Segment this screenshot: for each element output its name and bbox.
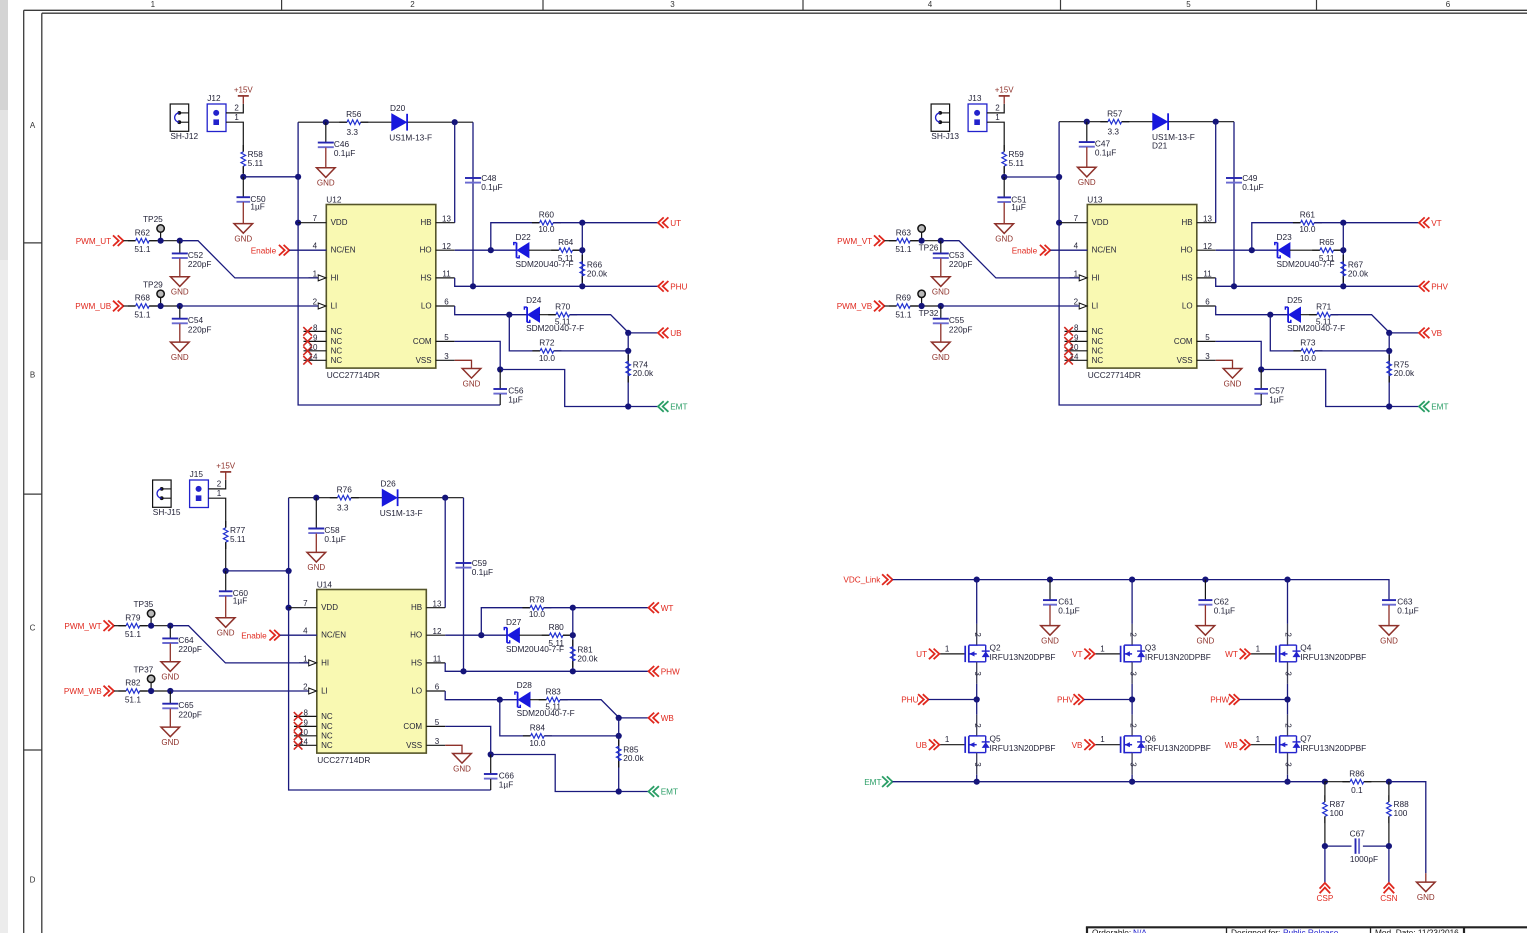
testpoint TP32 <box>918 290 939 318</box>
resistor R62 51.1 <box>128 227 157 254</box>
junction <box>1129 779 1135 785</box>
capacitor C54 220pF <box>172 306 212 342</box>
capacitor C53 220pF <box>933 241 973 277</box>
svg-text:5.11: 5.11 <box>548 638 564 648</box>
port flag PWM_UB <box>75 301 123 312</box>
wire <box>1270 315 1301 351</box>
svg-text:NC: NC <box>321 712 333 721</box>
port flag PHV <box>1419 281 1449 292</box>
wire rail to diode <box>1122 121 1153 123</box>
port flag PWM_WT <box>64 620 113 631</box>
svg-text:HS: HS <box>1181 273 1192 282</box>
junction <box>938 238 944 244</box>
svg-text:VT: VT <box>1072 650 1082 659</box>
wire rail to diode <box>351 497 382 499</box>
svg-text:GND: GND <box>1417 893 1435 902</box>
wire <box>1215 122 1217 223</box>
svg-text:6: 6 <box>444 298 449 307</box>
svg-text:B: B <box>30 370 35 379</box>
pin 1 HI stub <box>1070 277 1080 279</box>
wire diode to R70 <box>530 699 546 701</box>
svg-text:0.1µF: 0.1µF <box>472 567 493 577</box>
capacitor C67 1000pF <box>1350 829 1378 864</box>
svg-text:4: 4 <box>1074 242 1079 251</box>
connector J13 <box>968 93 987 131</box>
svg-text:TP32: TP32 <box>919 308 939 318</box>
jumper shunt SH-J13 <box>931 104 959 141</box>
wire phase <box>1084 699 1132 701</box>
wire <box>481 608 530 636</box>
svg-text:2: 2 <box>303 683 308 692</box>
resistor R82 51.1 <box>118 678 147 705</box>
wire <box>226 570 289 572</box>
pin 7 VDD stub <box>298 222 326 224</box>
svg-text:D22: D22 <box>516 232 532 242</box>
svg-text:D21: D21 <box>1152 140 1168 150</box>
svg-text:Orderable:: Orderable: <box>1092 928 1131 933</box>
junction <box>442 495 448 501</box>
diode D25 SDM20U40-7-F <box>1285 295 1345 333</box>
svg-text:LO: LO <box>1182 302 1193 311</box>
diode D24 SDM20U40-7-F <box>524 295 584 333</box>
junction <box>1267 312 1273 318</box>
wire to junctions <box>149 305 180 307</box>
svg-text:NC/EN: NC/EN <box>321 631 346 640</box>
resistor R74 20.0k <box>626 355 654 383</box>
resistor R70 5.11 <box>548 301 577 326</box>
svg-text:Q3: Q3 <box>1145 643 1156 653</box>
svg-text:PWM_VT: PWM_VT <box>837 237 872 246</box>
wire HO row <box>445 634 507 636</box>
junction <box>919 238 925 244</box>
testpoint TP37 <box>133 664 154 691</box>
ground <box>161 662 180 682</box>
port flag WT <box>649 602 674 613</box>
svg-text:1: 1 <box>234 113 239 122</box>
junction <box>1386 348 1392 354</box>
svg-text:3.3: 3.3 <box>1108 126 1120 136</box>
svg-text:3: 3 <box>973 671 982 676</box>
transistor Q7 IRFU13N20DPBF <box>1250 715 1366 775</box>
svg-text:J15: J15 <box>190 469 204 479</box>
svg-text:0.1µF: 0.1µF <box>1058 606 1079 616</box>
row ticks <box>24 242 42 244</box>
wire Enable <box>1050 249 1087 251</box>
ground <box>307 552 326 572</box>
svg-text:UT: UT <box>916 650 927 659</box>
svg-text:R86: R86 <box>1349 768 1365 778</box>
junction <box>570 668 576 674</box>
svg-text:51.1: 51.1 <box>895 309 912 319</box>
svg-text:GND: GND <box>932 353 950 362</box>
pin 10 NC stub <box>1065 350 1088 352</box>
junction <box>1340 220 1346 226</box>
svg-text:11: 11 <box>433 655 442 664</box>
svg-text:12: 12 <box>1203 242 1212 251</box>
svg-text:GND: GND <box>453 764 471 773</box>
svg-text:9: 9 <box>304 718 309 727</box>
resistor R86 0.1 <box>1325 768 1389 795</box>
transistor Q2 IRFU13N20DPBF <box>939 624 1055 684</box>
svg-text:GND: GND <box>995 235 1013 244</box>
port flag VT <box>1419 217 1442 228</box>
svg-text:D23: D23 <box>1277 232 1293 242</box>
wire <box>491 223 540 251</box>
junction <box>1386 779 1392 785</box>
transistor Q5 IRFU13N20DPBF <box>939 715 1055 775</box>
svg-text:1: 1 <box>1074 269 1079 278</box>
ground <box>216 618 235 638</box>
junction <box>478 632 484 638</box>
connector J15 <box>190 469 209 507</box>
wire top rail <box>1059 121 1108 123</box>
capacitor C66 1uF <box>484 755 515 791</box>
svg-text:R70: R70 <box>555 301 571 311</box>
port flag PWM_WB <box>64 686 114 697</box>
port flag EMT <box>658 401 687 412</box>
svg-text:1µF: 1µF <box>1269 394 1283 404</box>
svg-text:NC: NC <box>1092 356 1104 365</box>
junction <box>158 303 164 309</box>
pin 10 NC stub <box>294 735 317 737</box>
capacitor C62 0.1uF <box>1198 580 1235 626</box>
wire <box>455 278 658 286</box>
svg-text:2: 2 <box>1128 632 1137 637</box>
svg-text:HI: HI <box>331 273 339 282</box>
resistor R75 20.0k <box>1387 355 1415 383</box>
wire <box>1216 306 1288 315</box>
power +15V <box>234 86 254 104</box>
svg-text:R84: R84 <box>530 723 546 733</box>
svg-text:NC: NC <box>1092 346 1104 355</box>
svg-text:2: 2 <box>313 298 318 307</box>
svg-text:0.1µF: 0.1µF <box>481 182 502 192</box>
pin 11 stub <box>1197 277 1216 279</box>
svg-text:20.0k: 20.0k <box>633 368 654 378</box>
wire R to junction row <box>1003 166 1005 177</box>
port flag Enable <box>1012 245 1051 256</box>
svg-text:GND: GND <box>1197 636 1215 645</box>
ground <box>171 277 190 297</box>
junction <box>625 330 631 336</box>
svg-text:2: 2 <box>973 723 982 728</box>
pin 2 wire <box>987 104 1004 113</box>
junction <box>1284 696 1290 702</box>
svg-text:10: 10 <box>309 343 318 352</box>
wire <box>445 726 491 754</box>
capacitor C49 0.1uF <box>1226 173 1264 192</box>
svg-text:LI: LI <box>321 687 328 696</box>
capacitor C56 1uF <box>493 370 524 406</box>
svg-text:PWM_UT: PWM_UT <box>76 237 111 246</box>
svg-text:UB: UB <box>916 741 928 750</box>
wire R64 to node <box>563 634 573 636</box>
wire <box>454 122 456 223</box>
svg-text:NC/EN: NC/EN <box>1092 246 1117 255</box>
svg-text:EMT: EMT <box>864 778 881 787</box>
svg-text:HO: HO <box>1181 246 1193 255</box>
port flag WT <box>1225 649 1250 660</box>
wire <box>941 241 1079 278</box>
svg-text:Q4: Q4 <box>1300 643 1311 653</box>
svg-text:1µF: 1µF <box>1011 202 1025 212</box>
svg-text:LI: LI <box>331 302 338 311</box>
pin 8 NC stub <box>1065 330 1088 332</box>
wire R to junction row <box>225 542 227 571</box>
ground <box>317 168 336 188</box>
svg-text:1000pF: 1000pF <box>1350 854 1378 864</box>
junction <box>1129 696 1135 702</box>
svg-text:CSP: CSP <box>1316 894 1333 903</box>
svg-text:20.0k: 20.0k <box>577 653 598 663</box>
ground <box>462 369 481 389</box>
svg-text:8: 8 <box>304 708 309 717</box>
resistor R60 10.0 <box>532 209 561 234</box>
svg-text:10: 10 <box>1070 343 1079 352</box>
wire <box>500 700 531 736</box>
wire input <box>114 690 126 692</box>
wire <box>1004 176 1059 178</box>
port flag WB <box>649 713 675 724</box>
svg-text:HS: HS <box>420 273 431 282</box>
svg-text:1: 1 <box>945 644 950 653</box>
capacitor C48 0.1uF <box>465 173 503 192</box>
svg-text:+15V: +15V <box>234 86 254 95</box>
junction <box>158 238 164 244</box>
wire <box>170 626 308 663</box>
power +15V <box>995 86 1015 104</box>
wire <box>298 122 500 405</box>
wire C67 row <box>1325 845 1352 847</box>
wire UB row <box>1389 332 1419 334</box>
svg-text:5.11: 5.11 <box>545 702 561 712</box>
wire to junctions <box>140 625 171 627</box>
port flag PHW <box>1210 694 1239 705</box>
svg-text:220pF: 220pF <box>949 324 973 334</box>
capacitor C55 220pF <box>933 306 973 342</box>
port flag PHW <box>649 666 681 677</box>
transistor Q4 IRFU13N20DPBF <box>1250 624 1366 684</box>
svg-text:GND: GND <box>1078 178 1096 187</box>
svg-text:1: 1 <box>303 654 308 663</box>
svg-text:US1M-13-F: US1M-13-F <box>380 508 423 518</box>
wire source to phase <box>976 684 978 700</box>
wire <box>1216 360 1233 368</box>
svg-text:UB: UB <box>670 329 682 338</box>
svg-text:1: 1 <box>151 0 156 9</box>
svg-text:220pF: 220pF <box>178 644 202 654</box>
wire phase <box>929 699 977 701</box>
three-phase MOSFET bridge <box>843 574 1435 903</box>
pin 7 VDD stub <box>289 607 317 609</box>
resistor R69 51.1 <box>889 293 918 320</box>
pin 6 stub <box>1197 305 1216 307</box>
svg-text:14: 14 <box>309 352 318 361</box>
port flag UT <box>658 217 681 228</box>
svg-text:51.1: 51.1 <box>895 244 912 254</box>
svg-text:IRFU13N20DPBF: IRFU13N20DPBF <box>1145 652 1211 662</box>
junction <box>1231 283 1237 289</box>
svg-text:1: 1 <box>1100 735 1105 744</box>
svg-text:NC: NC <box>331 327 343 336</box>
junction <box>1340 247 1346 253</box>
svg-text:Designed for:: Designed for: <box>1231 928 1280 933</box>
pin 14 NC stub <box>294 744 317 746</box>
port flag VDC_Link <box>843 574 892 585</box>
svg-text:IRFU13N20DPBF: IRFU13N20DPBF <box>1145 743 1211 753</box>
resistor R57 3.3 <box>1100 108 1129 136</box>
wire <box>1261 370 1419 407</box>
svg-text:Enable: Enable <box>251 246 277 255</box>
capacitor C52 220pF <box>172 241 212 277</box>
junction <box>1001 174 1007 180</box>
pin 10 NC stub <box>304 350 327 352</box>
transistor Q6 IRFU13N20DPBF <box>1095 715 1211 775</box>
wire R74 column <box>627 333 629 407</box>
svg-text:VDD: VDD <box>321 603 338 612</box>
pin 11 stub <box>426 662 445 664</box>
wire phase to drain <box>1131 700 1133 715</box>
wire to UT <box>1314 222 1419 224</box>
svg-text:IRFU13N20DPBF: IRFU13N20DPBF <box>1300 652 1366 662</box>
resistor R81 20.0k <box>571 640 599 668</box>
svg-text:0.1: 0.1 <box>1351 785 1363 795</box>
wire <box>893 580 1390 601</box>
ground <box>1417 882 1436 902</box>
junction <box>1202 577 1208 583</box>
resistor R67 20.0k <box>1341 255 1369 283</box>
connector J12 <box>207 93 226 131</box>
wire to junctions <box>149 240 180 242</box>
pin 1 HI stub <box>299 662 309 664</box>
svg-text:US1M-13-F: US1M-13-F <box>389 132 432 142</box>
svg-text:5.11: 5.11 <box>555 317 571 327</box>
wire R66 column <box>581 223 583 287</box>
svg-text:Q6: Q6 <box>1145 733 1156 743</box>
junction <box>938 303 944 309</box>
svg-text:R60: R60 <box>539 209 555 219</box>
wire <box>1389 782 1426 874</box>
svg-text:NC: NC <box>321 722 333 731</box>
resistor R59 5.11 <box>1002 145 1025 173</box>
svg-text:VSS: VSS <box>1177 356 1193 365</box>
pin 1 HI stub <box>309 277 319 279</box>
resistor R87 100 <box>1323 782 1346 846</box>
svg-text:HO: HO <box>410 631 422 640</box>
junction <box>579 283 585 289</box>
wire <box>1059 122 1261 405</box>
wire <box>509 315 540 351</box>
resistor R58 5.11 <box>241 145 264 173</box>
svg-text:13: 13 <box>442 214 451 223</box>
resistor R88 100 <box>1387 782 1410 846</box>
svg-text:C67: C67 <box>1350 829 1366 839</box>
svg-text:U12: U12 <box>326 194 342 204</box>
svg-text:6: 6 <box>1446 0 1451 9</box>
svg-text:220pF: 220pF <box>188 324 212 334</box>
junction <box>625 403 631 409</box>
svg-text:1: 1 <box>217 489 222 498</box>
resistor R56 3.3 <box>339 109 368 137</box>
svg-text:D20: D20 <box>390 103 406 113</box>
pin 14 NC stub <box>1065 359 1088 361</box>
wire <box>445 691 517 700</box>
svg-text:3.3: 3.3 <box>347 127 359 137</box>
pin 6 stub <box>436 305 455 307</box>
svg-text:R57: R57 <box>1107 108 1123 118</box>
svg-text:NC: NC <box>321 731 333 740</box>
svg-text:HO: HO <box>420 246 432 255</box>
svg-text:10.0: 10.0 <box>529 738 546 748</box>
port flag UT <box>916 649 939 660</box>
svg-text:COM: COM <box>413 337 432 346</box>
junction <box>470 283 476 289</box>
junction <box>570 605 576 611</box>
junction <box>1249 247 1255 253</box>
svg-text:R65: R65 <box>1319 237 1335 247</box>
svg-text:U13: U13 <box>1087 194 1103 204</box>
svg-text:5.11: 5.11 <box>230 534 246 544</box>
port flag UB <box>916 739 940 750</box>
junction <box>497 697 503 703</box>
svg-text:HB: HB <box>420 218 431 227</box>
svg-text:R82: R82 <box>125 678 141 688</box>
svg-text:10.0: 10.0 <box>529 609 546 619</box>
svg-text:4: 4 <box>313 242 318 251</box>
svg-text:Enable: Enable <box>1012 246 1038 255</box>
ground <box>161 727 180 747</box>
capacitor C63 0.1uF <box>1382 596 1419 625</box>
junction <box>974 577 980 583</box>
svg-text:100: 100 <box>1394 808 1408 818</box>
svg-text:IRFU13N20DPBF: IRFU13N20DPBF <box>990 652 1056 662</box>
wire <box>1233 122 1235 287</box>
port flag PHU <box>658 281 688 292</box>
pin 3 stub <box>426 744 445 746</box>
wire <box>180 305 318 307</box>
wire R to junction row <box>242 166 244 177</box>
junction <box>579 247 585 253</box>
svg-text:CSN: CSN <box>1380 894 1397 903</box>
svg-text:R78: R78 <box>529 594 545 604</box>
pin 12 stub <box>426 634 445 636</box>
junction <box>1340 283 1346 289</box>
wire input <box>884 305 896 307</box>
pin 2 wire <box>226 104 243 113</box>
svg-text:VDD: VDD <box>331 218 348 227</box>
wire top rail <box>298 121 347 123</box>
svg-text:Mod. Date: 11/23/2016: Mod. Date: 11/23/2016 <box>1375 928 1459 933</box>
resistor R71 5.11 <box>1309 301 1338 326</box>
wire <box>941 305 1079 307</box>
junction <box>177 303 183 309</box>
wire phase to drain <box>976 700 978 715</box>
svg-text:U14: U14 <box>317 579 333 589</box>
svg-text:3: 3 <box>1128 762 1137 767</box>
svg-text:3: 3 <box>973 762 982 767</box>
svg-text:NC: NC <box>331 346 343 355</box>
pin 5 stub <box>426 725 445 727</box>
svg-text:C: C <box>30 624 36 633</box>
diode D28 SDM20U40-7-F <box>515 680 575 718</box>
pin 2 LI stub <box>309 688 317 694</box>
svg-text:R68: R68 <box>135 293 151 303</box>
svg-text:NC/EN: NC/EN <box>331 246 356 255</box>
junction <box>286 568 292 574</box>
svg-text:NC: NC <box>1092 327 1104 336</box>
svg-text:12: 12 <box>433 627 442 636</box>
svg-text:2: 2 <box>1128 723 1137 728</box>
